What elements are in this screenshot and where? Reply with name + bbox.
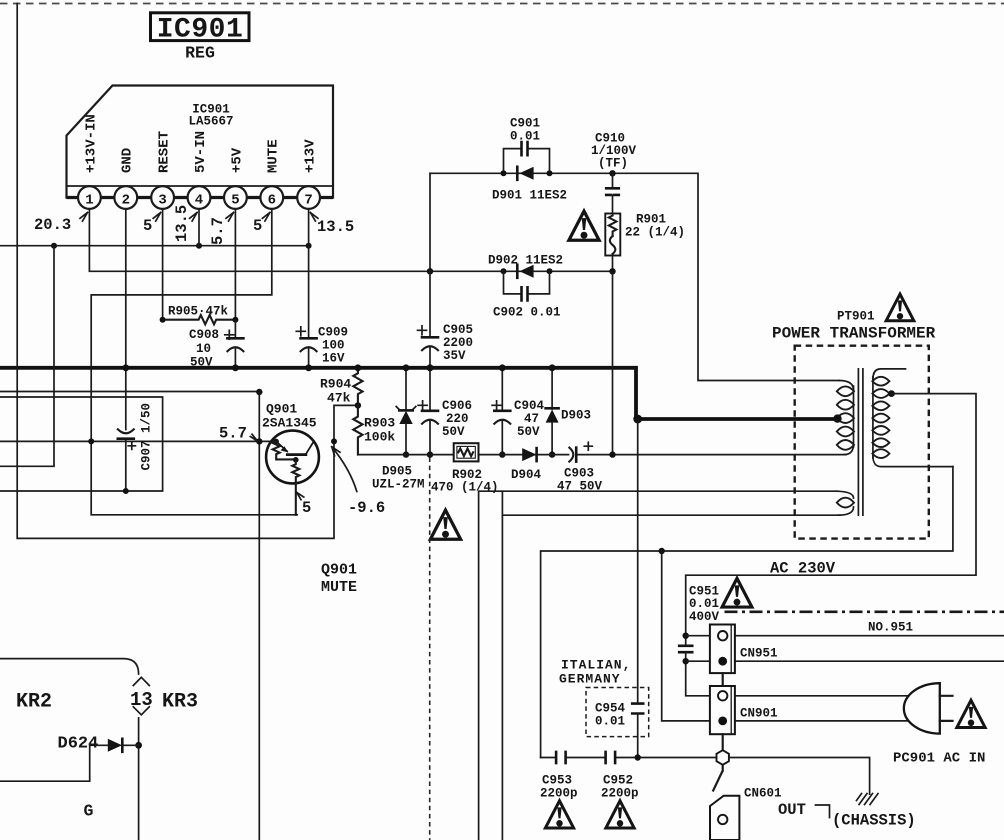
probe arrow pin4: [190, 213, 198, 222]
svg-text:MUTE: MUTE: [321, 579, 357, 596]
svg-text:13.5: 13.5: [317, 218, 354, 236]
pin 7: [297, 186, 320, 209]
diode D902: [488, 254, 563, 278]
node C906 bottom: [427, 451, 433, 457]
bracket for OUT: [816, 805, 830, 818]
svg-text:RESET: RESET: [157, 131, 173, 173]
wire bus corner down through C954: [637, 419, 639, 758]
node C954 bottom: [635, 754, 641, 760]
terminal hexagon node: [717, 750, 729, 765]
resistor R904: [320, 368, 363, 406]
svg-text:47: 47: [524, 412, 539, 426]
svg-text:ITALIAN,: ITALIAN,: [561, 658, 631, 673]
probe arrow pin5: [226, 213, 234, 222]
svg-text:CN901: CN901: [740, 707, 778, 721]
svg-text:R905·47k: R905·47k: [168, 305, 229, 319]
wire left tall loop to emitter net: [17, 4, 358, 539]
svg-text:C901: C901: [510, 117, 540, 131]
svg-text:0.01: 0.01: [689, 597, 719, 611]
svg-text:C953: C953: [542, 774, 572, 788]
svg-text:2SA1345: 2SA1345: [262, 416, 317, 431]
svg-text:5.7: 5.7: [219, 425, 247, 443]
svg-text:(TF): (TF): [598, 157, 628, 171]
svg-text:Q901: Q901: [321, 562, 357, 579]
capacitor C954: [595, 702, 643, 729]
capacitor C908: [189, 320, 243, 370]
svg-text:13: 13: [130, 689, 153, 711]
svg-text:POWER TRANSFORMER: POWER TRANSFORMER: [772, 325, 936, 343]
svg-text:5V-IN: 5V-IN: [193, 131, 209, 173]
svg-text:AC 230V: AC 230V: [770, 560, 836, 578]
node R904/R903 junction: [355, 402, 361, 408]
wire KR3 down: [138, 718, 140, 840]
probe arrow collector: [297, 493, 304, 500]
svg-text:20.3: 20.3: [34, 216, 71, 234]
svg-text:G: G: [84, 802, 94, 821]
wire right leg to lower primary top: [479, 491, 838, 840]
svg-text:(CHASSIS): (CHASSIS): [832, 812, 916, 830]
probe arrow pin7: [310, 213, 318, 222]
svg-text:7: 7: [304, 193, 312, 209]
probe arrow pin6: [262, 213, 270, 222]
primary winding loops: [837, 386, 854, 449]
node C951 top: [683, 633, 689, 639]
svg-text:GERMANY: GERMANY: [559, 672, 621, 687]
svg-text:PT901: PT901: [837, 310, 875, 324]
probe arrow pin1: [80, 213, 88, 222]
node D901 right: [547, 170, 553, 176]
primary winding bottom bend to output line: [844, 444, 854, 455]
node big bus corner junction: [633, 415, 642, 424]
warning triangle below R902: [430, 510, 460, 539]
wire pin4: [198, 209, 200, 246]
primary winding spine: [853, 386, 855, 447]
svg-text:5.7: 5.7: [209, 217, 227, 245]
node pin7 rail: [306, 243, 312, 249]
warning triangle C951: [722, 578, 752, 607]
plug PC901 AC IN: [893, 683, 985, 766]
svg-text:470 (1/4): 470 (1/4): [431, 481, 499, 495]
secondary tap node: [888, 390, 895, 397]
node D903 bus: [549, 364, 556, 371]
wire left stub to +5 rail: [0, 246, 54, 467]
wire CN901 down to node: [722, 734, 724, 750]
pin 5: [224, 186, 247, 209]
node C951 bottom: [683, 658, 689, 664]
wire stub below hexagon into CN601: [713, 765, 723, 790]
connector CN601: [710, 787, 782, 840]
pin 2: [114, 186, 137, 209]
node C904 bottom: [499, 451, 505, 457]
capacitor C904: [492, 368, 544, 455]
node C904 bus: [499, 364, 506, 371]
svg-text:GND: GND: [120, 148, 136, 173]
svg-text:PC901 AC IN: PC901 AC IN: [893, 751, 985, 767]
svg-text:100: 100: [322, 339, 345, 353]
svg-text:4: 4: [195, 193, 203, 209]
diode D901: [492, 167, 567, 203]
capacitor C909: [296, 326, 348, 366]
connector CN951: [710, 625, 778, 674]
svg-text:R901: R901: [636, 213, 666, 227]
node C903 right / D902 net: [609, 451, 615, 457]
wire loop via C907 bottom: [0, 397, 163, 491]
svg-text:+13V-IN: +13V-IN: [83, 114, 99, 173]
wire hexagon to chassis ground: [730, 758, 870, 795]
svg-text:+5V: +5V: [229, 147, 245, 173]
node D903 bottom: [549, 451, 555, 457]
node C905 bus: [427, 364, 434, 371]
wire pin1 to D902 line: [89, 209, 612, 271]
secondary winding loops: [872, 377, 889, 458]
capacitor C901 with bracket: [504, 117, 550, 174]
diode D624: [58, 735, 123, 754]
pin 3: [151, 186, 174, 209]
svg-text:5: 5: [231, 193, 239, 209]
svg-text:0.01: 0.01: [510, 130, 540, 144]
svg-text:3: 3: [158, 193, 166, 209]
secondary winding top stub: [873, 369, 906, 379]
node thick tap on primary: [833, 414, 841, 422]
svg-text:35V: 35V: [443, 349, 466, 363]
wire D902 junction down to C903 line: [612, 271, 614, 454]
op-amp/regulator IC901 LA5667 package outline: [67, 86, 334, 198]
transistor Q901 2SA1345: [262, 402, 319, 515]
wire pin2 GND down: [125, 209, 127, 491]
svg-text:6: 6: [268, 193, 276, 209]
IC901 title label: [151, 13, 250, 63]
chassis ground: [857, 794, 879, 805]
svg-text:D901 11ES2: D901 11ES2: [492, 189, 567, 203]
interruption marks 13: [133, 677, 149, 715]
wire C905 branch up to D901 line: [429, 173, 431, 271]
svg-text:50V: 50V: [442, 425, 465, 439]
svg-text:47k: 47k: [327, 391, 351, 406]
node emitter-line: [331, 438, 337, 444]
svg-text:0.01: 0.01: [595, 715, 625, 729]
node D902 right: [547, 268, 553, 274]
wire CN951 pin2 line: [686, 660, 1004, 662]
resistor R903: [353, 405, 395, 454]
svg-text:R904: R904: [320, 377, 351, 392]
wire CN901 pin1 to plug: [736, 695, 907, 697]
capacitor C910: [591, 132, 637, 214]
svg-text:D905: D905: [382, 465, 412, 479]
svg-text:OUT: OUT: [778, 801, 806, 819]
node pin4 rail: [196, 243, 202, 249]
transformer core: [858, 368, 863, 516]
svg-text:KR3: KR3: [162, 691, 198, 714]
svg-text:C902 0.01: C902 0.01: [493, 306, 561, 320]
svg-text:C906: C906: [442, 399, 472, 413]
node R904 bus: [355, 364, 362, 371]
node R901 bottom: [609, 268, 615, 274]
wire pin3: [162, 209, 164, 320]
node D901 left: [501, 170, 507, 176]
svg-text:D624: D624: [58, 735, 99, 754]
capacitor C951: [679, 585, 719, 696]
node AC line / CN901 branch: [659, 548, 665, 554]
capacitor C952: [601, 752, 716, 801]
pin 1: [78, 186, 101, 209]
node R905 left: [160, 317, 166, 323]
resistor R905: [163, 305, 235, 325]
primary winding top bend: [839, 381, 854, 391]
svg-text:400V: 400V: [689, 610, 720, 624]
warning triangle C952: [606, 801, 634, 828]
svg-text:C907 1/50: C907 1/50: [140, 403, 154, 471]
wire pin7 through C909: [308, 209, 310, 368]
italian germany option dashed box: [586, 688, 649, 737]
wire D901 13V line to transformer: [430, 173, 839, 380]
wire C903 output line: [358, 454, 846, 456]
node D902 line / C905: [427, 268, 433, 274]
svg-text:R903: R903: [364, 416, 395, 431]
node D905 bottom: [403, 451, 409, 457]
node C908 bus: [232, 364, 239, 371]
warning triangle PT901: [886, 294, 914, 321]
warning triangle PC901: [957, 700, 985, 727]
pin 6: [260, 186, 283, 209]
svg-text:16V: 16V: [322, 352, 345, 366]
svg-text:REG: REG: [185, 44, 215, 63]
node D905 bus: [403, 364, 410, 371]
node D902 left: [501, 268, 507, 274]
wire CN951 to CN901: [722, 673, 724, 686]
svg-text:C909: C909: [318, 326, 348, 340]
svg-text:D903: D903: [561, 409, 591, 423]
wire measure line to Q901 base net: [0, 391, 259, 393]
secondary bottom bend: [873, 456, 953, 467]
node C907 bottom: [123, 488, 129, 494]
wire Q901 base line: [0, 440, 276, 442]
capacitor C907: [118, 403, 154, 471]
svg-text:100k: 100k: [364, 430, 395, 445]
svg-text:Q901: Q901: [266, 402, 297, 417]
node C910 top: [609, 170, 615, 176]
wire AC line from C953 net up: [541, 467, 953, 758]
capacitor C953: [540, 752, 605, 801]
capacitor C902 with bracket: [493, 271, 561, 319]
wire right leg to lower primary bottom: [502, 491, 840, 840]
svg-text:D902 11ES2: D902 11ES2: [488, 254, 563, 268]
svg-text:C903: C903: [564, 467, 594, 481]
thick 13V bus: [0, 368, 834, 419]
dashed option line down from D905 node: [429, 458, 431, 840]
resistor R902 boxed: [431, 443, 499, 494]
svg-text:220: 220: [446, 412, 469, 426]
node R905 right pin5: [232, 317, 238, 323]
node pin2 bus: [122, 364, 129, 371]
svg-text:22 (1/4): 22 (1/4): [625, 226, 685, 240]
svg-text:1: 1: [85, 193, 93, 209]
diode D904: [511, 448, 542, 482]
svg-text:C908: C908: [189, 328, 219, 342]
node C906 bus: [427, 364, 434, 371]
svg-text:C954: C954: [595, 702, 626, 716]
capacitor C903: [557, 442, 603, 493]
node Q901 base: [256, 438, 262, 444]
node base junction left: [88, 438, 94, 444]
svg-text:5: 5: [143, 217, 152, 235]
svg-text:2200: 2200: [443, 336, 473, 350]
svg-text:CN601: CN601: [744, 787, 782, 801]
wire secondary tap to AC IN loop: [686, 394, 976, 646]
svg-text:13.5: 13.5: [173, 205, 191, 242]
probe arrow pin3: [153, 213, 161, 222]
warning triangle C953: [545, 801, 573, 828]
svg-text:C952: C952: [603, 774, 633, 788]
svg-text:50V: 50V: [190, 356, 213, 370]
wire KR2 line with rounded corner: [0, 659, 139, 674]
capacitor C905: [418, 271, 474, 368]
svg-text:KR2: KR2: [16, 691, 52, 714]
wire +5V rail pins 4/7: [0, 245, 309, 247]
wire pin5: [234, 209, 236, 320]
wire CN901 pin2 to plug: [736, 720, 909, 722]
svg-text:CN951: CN951: [740, 647, 778, 661]
svg-text:-9.6: -9.6: [348, 499, 385, 517]
wire pin6 mute loop: [91, 209, 297, 515]
transformer PT901 dashed box: [795, 346, 929, 539]
pin 4: [188, 186, 211, 209]
node base net: [256, 389, 262, 395]
node left rail: [51, 243, 57, 249]
wire D624 branch: [0, 745, 139, 781]
NO.951 dash-dot boundary: [725, 610, 1004, 613]
connector CN901: [710, 686, 778, 734]
capacitor C906: [418, 368, 472, 455]
probe arrow base: [250, 434, 257, 441]
svg-text:+13V: +13V: [303, 139, 319, 173]
svg-text:MUTE: MUTE: [266, 139, 282, 173]
wire long vertical base net down: [258, 392, 260, 840]
diode D903: [546, 368, 591, 455]
warning triangle near R901: [569, 211, 599, 240]
svg-text:10: 10: [196, 342, 211, 356]
svg-text:2: 2: [122, 193, 130, 209]
svg-text:5: 5: [302, 499, 311, 517]
lower primary single loop: [836, 491, 854, 515]
svg-text:C905: C905: [443, 323, 473, 337]
wire CN901 pin2 from AC branch: [662, 551, 718, 721]
resistor R901 fusible: [605, 213, 685, 272]
node C909 bus: [305, 364, 312, 371]
svg-text:IC901: IC901: [157, 15, 244, 46]
zener D905: [372, 368, 425, 492]
pin lead bars: [67, 196, 334, 199]
svg-text:UZL-27M: UZL-27M: [372, 478, 425, 492]
svg-text:5: 5: [253, 217, 262, 235]
svg-text:LA5667: LA5667: [188, 115, 233, 129]
svg-text:C904: C904: [514, 399, 545, 413]
svg-text:50V: 50V: [517, 425, 540, 439]
svg-text:D904: D904: [511, 468, 542, 482]
svg-text:2200p: 2200p: [540, 787, 578, 801]
node D624 cathode: [135, 742, 142, 749]
svg-text:NO.951: NO.951: [868, 621, 913, 635]
secondary winding spine: [872, 377, 874, 458]
wire CN951 pin1 line: [686, 635, 1004, 637]
